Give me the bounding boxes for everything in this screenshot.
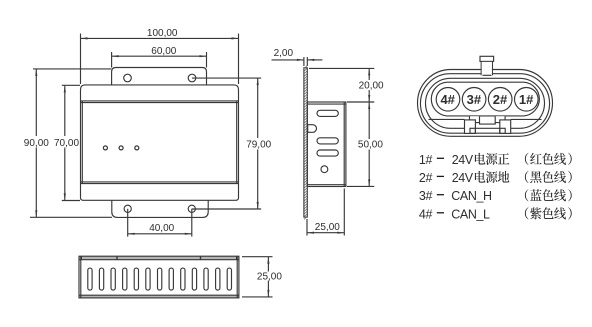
front view lid seam upper	[81, 100, 239, 102]
dimension 70,00 extension lines	[62, 84, 80, 86]
front view top mounting tab	[112, 68, 207, 85]
side view left edge slot	[308, 125, 317, 133]
svg-text:50,00: 50,00	[358, 140, 383, 151]
dimension 40,00 line	[128, 233, 192, 235]
bottom view seam tick 4	[236, 256, 238, 260]
side view mounting plate	[304, 68, 307, 217]
dimension 60,00 line	[112, 55, 207, 57]
connector shell ring 2	[420, 74, 549, 134]
connector pin 4 circle	[436, 88, 460, 112]
dimension 100,00 extension lines	[80, 34, 82, 85]
connector shell ring 3	[426, 78, 545, 128]
dimension 25,00 bottom line	[267, 257, 269, 272]
bottom view seam tick 2	[116, 256, 118, 260]
pin list line 1 wire color	[525, 153, 529, 165]
connector bottom hook right	[500, 120, 511, 133]
connector pin 3 circle	[462, 88, 486, 112]
connector pin 1 circle	[515, 88, 539, 112]
front view top tab hole left	[124, 74, 132, 82]
front view bottom tab hole left	[124, 205, 131, 212]
front view panel inset left edge	[81, 101, 83, 184]
bottom view seam tick 3	[200, 256, 202, 260]
svg-text:4#: 4#	[440, 92, 455, 107]
bottom view bottom band fill	[79, 295, 239, 298]
side view vent slot 1	[317, 110, 338, 116]
connector latch right block	[495, 116, 505, 122]
dimension 79,00 extension lines	[192, 77, 261, 79]
svg-text:20,00: 20,00	[359, 81, 384, 92]
bottom view outline	[79, 256, 239, 298]
bottom view inner bottom line	[79, 294, 239, 296]
pin list line 2 wire color	[525, 171, 529, 183]
dimension 60,00 extension lines	[111, 52, 113, 68]
front view lid seam lower	[81, 181, 239, 183]
front view LED hole 2	[119, 146, 123, 150]
connector outer shell	[418, 70, 553, 137]
svg-text:2,00: 2,00	[274, 48, 294, 59]
front view bottom mounting tab	[112, 200, 208, 217]
svg-text:1#: 1#	[519, 92, 534, 107]
connector latch shelf line	[429, 118, 465, 120]
side view body box	[307, 102, 346, 187]
bottom view vent slots	[88, 268, 92, 290]
pin list line 2 name	[475, 171, 486, 183]
dimension 50,00 extension lines	[347, 101, 374, 103]
connector latch left block	[470, 116, 480, 122]
svg-text:3#: 3#	[419, 189, 433, 203]
bottom view seam tick 1	[80, 256, 82, 260]
side view hole	[321, 166, 328, 173]
connector pin 2 circle	[488, 88, 512, 112]
svg-text:24V: 24V	[452, 153, 474, 167]
connector latch center recess	[480, 123, 496, 125]
front view panel inset right edge	[236, 101, 238, 184]
side view box inner right line	[343, 102, 345, 187]
svg-text:24V: 24V	[452, 171, 474, 185]
pin list line 1 name	[475, 153, 486, 165]
dimension 100,00 line	[81, 37, 239, 39]
dimension 25,00 side extension lines	[306, 219, 308, 236]
connector inner ring	[431, 82, 539, 116]
svg-text:90,00: 90,00	[24, 138, 49, 149]
dimension 20,00 extension line	[309, 67, 374, 69]
dimension 70,00 line	[64, 85, 66, 136]
svg-text:40,00: 40,00	[149, 223, 174, 234]
svg-text:3#: 3#	[467, 92, 482, 107]
svg-text:1#: 1#	[419, 153, 433, 167]
bottom view inner right line	[236, 256, 238, 298]
svg-text:60,00: 60,00	[151, 46, 176, 57]
side view vent slot 3	[317, 150, 338, 156]
pin list line 3 wire color	[525, 189, 529, 201]
svg-text:25,00: 25,00	[257, 271, 282, 282]
svg-text:25,00: 25,00	[315, 222, 340, 233]
front view LED hole 3	[135, 146, 139, 150]
svg-text:4#: 4#	[419, 207, 433, 221]
front view bottom tab hole right	[188, 205, 195, 212]
side view box inner bottom line	[307, 184, 346, 186]
svg-text:CAN_H: CAN_H	[451, 189, 492, 203]
dimension 90,00 line	[35, 69, 37, 136]
side view mounting plate hatching	[304, 65, 307, 219]
bottom view inner left line	[80, 256, 82, 298]
svg-text:79,00: 79,00	[246, 140, 271, 151]
svg-text:CAN_L: CAN_L	[451, 207, 490, 221]
svg-text:70,00: 70,00	[54, 138, 79, 149]
front view top tab hole right	[188, 74, 196, 82]
svg-text:2#: 2#	[419, 171, 433, 185]
front view LED hole 1	[103, 146, 107, 150]
front view body outline	[81, 85, 239, 200]
connector top latch tab	[480, 56, 494, 61]
dimension 79,00 line	[257, 78, 259, 138]
side view vent slot 2	[317, 138, 338, 144]
side view box inner top line	[307, 103, 346, 105]
svg-text:100,00: 100,00	[147, 28, 178, 39]
bottom view inner top line	[79, 259, 239, 261]
dimension 50,00 line	[368, 102, 370, 139]
dimension 2,00 line	[272, 59, 304, 61]
dimension 90,00 extension lines	[33, 68, 111, 70]
connector bottom hook left	[465, 120, 476, 133]
bottom view top band fill	[79, 256, 239, 260]
dimension 2,00 extension lines	[303, 57, 305, 66]
dimension 20,00 line	[368, 68, 370, 80]
svg-text:2#: 2#	[493, 92, 508, 107]
pin list line 4 wire color	[525, 207, 529, 219]
dimension 40,00 extension lines	[127, 209, 129, 237]
dimension 25,00 side line	[307, 232, 344, 234]
dimension 25,00 bottom extension lines	[242, 256, 273, 258]
